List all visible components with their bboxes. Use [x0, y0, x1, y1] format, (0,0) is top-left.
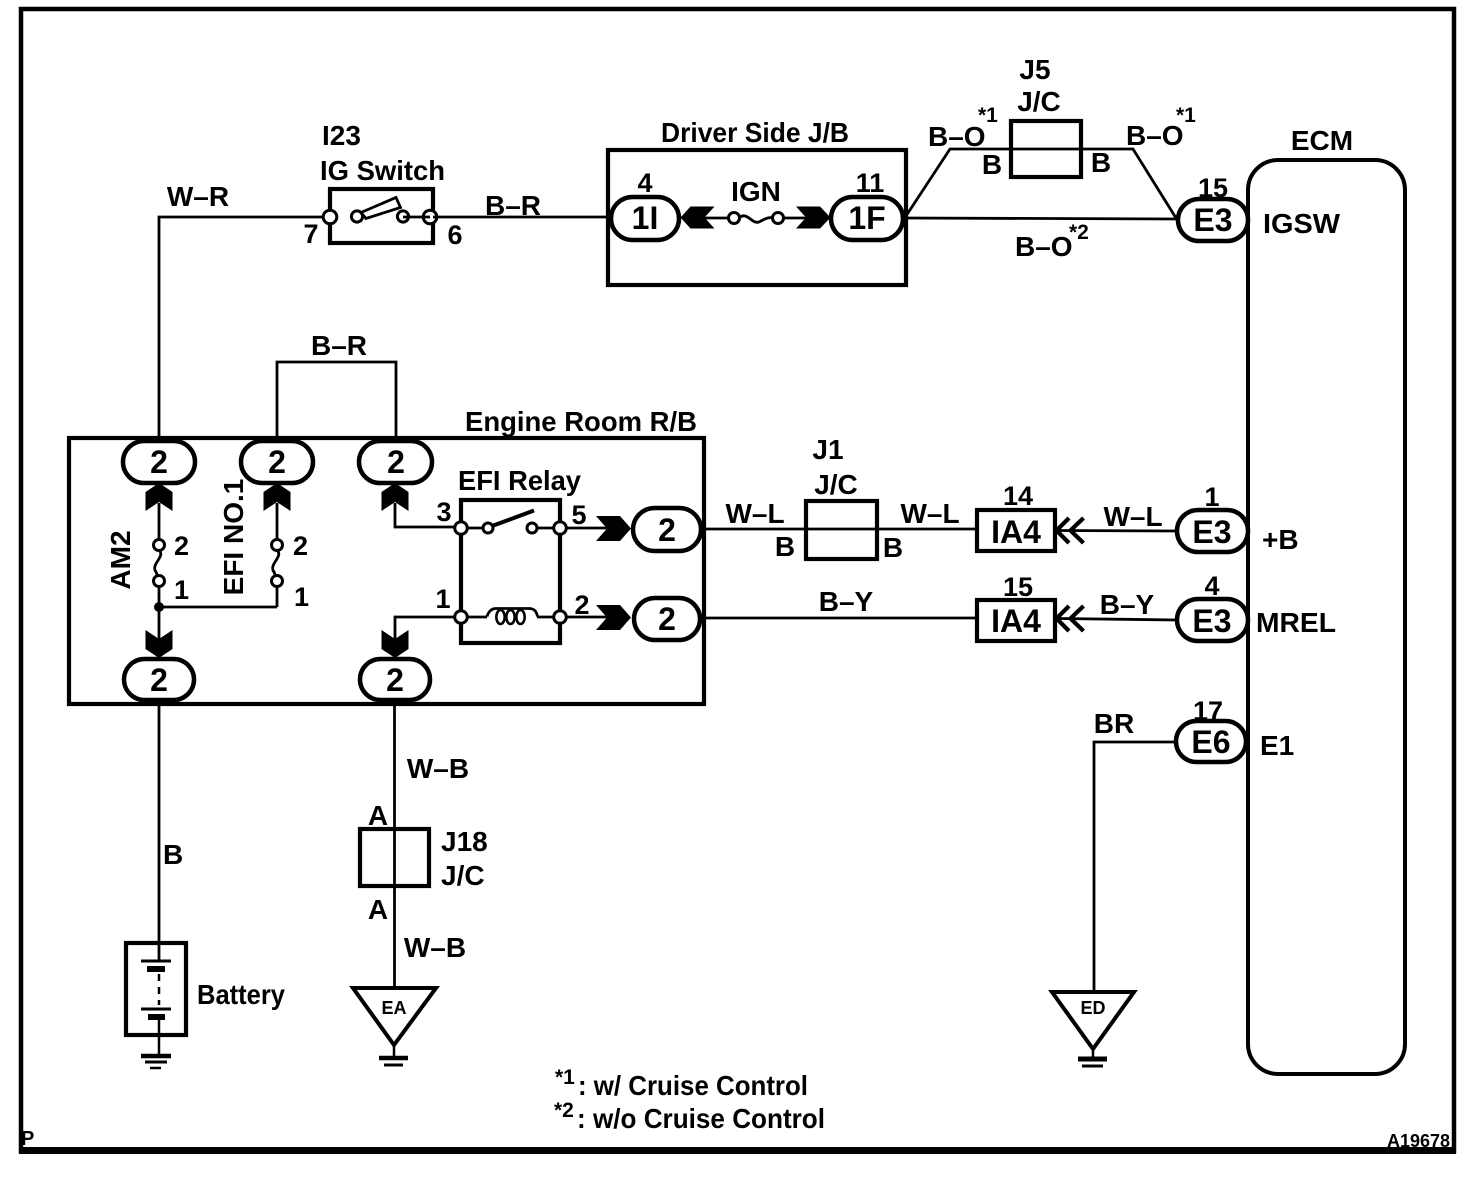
label B	[163, 839, 183, 870]
pin 7	[303, 219, 318, 249]
arrow right row2	[596, 605, 631, 630]
label ECM	[1291, 125, 1353, 156]
label B-R	[485, 190, 541, 221]
svg-text:5: 5	[571, 500, 586, 530]
svg-text:2: 2	[150, 662, 168, 698]
svg-text:11: 11	[856, 168, 885, 198]
label P	[21, 1128, 34, 1150]
label W-L 1	[725, 498, 784, 529]
svg-text:W–B: W–B	[407, 753, 469, 784]
connector IA4 pin 15	[977, 600, 1055, 641]
svg-text:B: B	[163, 839, 183, 870]
junction J5 J/C	[1011, 121, 1081, 177]
svg-text:17: 17	[1193, 696, 1223, 726]
label B right of J1	[883, 532, 903, 563]
chevrons row1	[1057, 518, 1084, 543]
connector 2 top col2	[241, 441, 313, 483]
label BR	[1094, 708, 1134, 739]
svg-text:J/C: J/C	[441, 860, 485, 891]
svg-text:Engine Room R/B: Engine Room R/B	[465, 406, 697, 437]
relay switch contacts	[483, 511, 554, 534]
svg-text:2: 2	[293, 531, 308, 561]
chevrons row2	[1057, 606, 1084, 631]
label IGN	[731, 176, 781, 207]
svg-text:4: 4	[1204, 571, 1219, 601]
pin 6	[447, 220, 462, 250]
battery	[126, 943, 186, 1056]
svg-text:1: 1	[435, 584, 450, 614]
label B-O*1 left	[928, 104, 998, 152]
fuse EFI NO.1	[272, 503, 283, 607]
pin 1 relay	[435, 584, 450, 614]
svg-text:3: 3	[436, 497, 451, 527]
svg-text:Driver Side J/B: Driver Side J/B	[661, 117, 849, 148]
pin 11	[856, 168, 885, 198]
svg-text:B: B	[883, 532, 903, 563]
connector E3 pin 1	[1177, 510, 1248, 552]
svg-text:A: A	[368, 894, 388, 925]
footnote 2	[554, 1099, 825, 1134]
svg-text:B–Y: B–Y	[1100, 589, 1155, 620]
svg-text:AM2: AM2	[105, 530, 136, 589]
svg-text:B–O: B–O	[1015, 231, 1073, 262]
ground battery	[141, 1056, 171, 1068]
svg-text:IG Switch: IG Switch	[320, 155, 445, 186]
relay pin circles	[455, 522, 567, 624]
label W-L 2	[900, 498, 959, 529]
arrow down col1	[146, 630, 173, 658]
svg-text:4: 4	[637, 168, 652, 198]
svg-text:B–R: B–R	[311, 330, 367, 361]
wire W-L to E3	[1058, 529, 1177, 532]
svg-text:W–L: W–L	[1103, 501, 1162, 532]
label J1	[812, 434, 843, 465]
label MREL	[1256, 607, 1336, 638]
arrow up col3	[382, 483, 409, 511]
label IG Switch	[320, 155, 445, 186]
Engine Room R/B box	[69, 438, 704, 704]
label I23	[322, 120, 361, 151]
connector E6 pin 17	[1176, 721, 1246, 762]
wire BR to E6	[1094, 742, 1176, 992]
wire relay pin5 to output	[566, 527, 608, 530]
svg-text:IA4: IA4	[991, 514, 1041, 550]
svg-text:2: 2	[658, 601, 676, 637]
connector 2 bottom col1	[124, 659, 194, 700]
svg-text:14: 14	[1003, 481, 1033, 511]
IG switch I23	[323, 189, 437, 243]
svg-text:W–L: W–L	[900, 498, 959, 529]
svg-text:*2: *2	[554, 1099, 574, 1122]
ECM box	[1248, 160, 1405, 1074]
svg-text:*1: *1	[555, 1066, 575, 1089]
fuse AM2	[154, 503, 165, 604]
label B-Y 1	[819, 586, 874, 617]
pin 4	[637, 168, 652, 198]
pin 2 AM2	[174, 531, 189, 561]
svg-text:J5: J5	[1019, 54, 1050, 85]
pin 15	[1198, 173, 1228, 203]
svg-text:15: 15	[1198, 173, 1228, 203]
connector 2 top col1	[123, 441, 195, 483]
svg-text:E1: E1	[1260, 730, 1294, 761]
label B-Y 2	[1100, 589, 1155, 620]
pin 17	[1193, 696, 1223, 726]
connector IA4 pin 14	[977, 510, 1055, 551]
svg-text:EFI NO.1: EFI NO.1	[218, 479, 249, 596]
label W-R	[167, 181, 229, 212]
svg-text:1: 1	[294, 582, 309, 612]
junction node	[154, 602, 164, 612]
label EFI NO.1	[218, 479, 249, 596]
label B left of J1	[775, 531, 795, 562]
svg-text:B–O: B–O	[1126, 120, 1184, 151]
label IGSW	[1263, 208, 1341, 239]
svg-text:E3: E3	[1193, 202, 1232, 238]
label J/C	[1017, 86, 1061, 117]
wire B-O*1 branch through J5	[906, 149, 1176, 218]
label B-O*1 right	[1126, 104, 1196, 151]
label B-O*2	[1015, 221, 1089, 262]
label J5	[1019, 54, 1050, 85]
label W-B 1	[407, 753, 469, 784]
svg-text:6: 6	[447, 220, 462, 250]
relay coil	[465, 528, 554, 624]
connector E3 pin 4	[1177, 599, 1248, 641]
svg-text:7: 7	[303, 219, 318, 249]
connector 1F	[831, 197, 903, 240]
svg-text:1: 1	[1204, 482, 1219, 512]
svg-text:*1: *1	[1176, 104, 1196, 127]
label J18	[441, 826, 488, 857]
wire W-R from IG switch to Engine Room R/B	[159, 217, 330, 441]
svg-text:B–Y: B–Y	[819, 586, 874, 617]
svg-text:2: 2	[174, 531, 189, 561]
svg-text:E3: E3	[1192, 603, 1231, 639]
pin 1 AM2	[174, 575, 189, 605]
wire relay pin2 to output	[566, 616, 608, 619]
svg-text:B–R: B–R	[485, 190, 541, 221]
wire B-R loop	[277, 362, 396, 440]
wire W-L row	[701, 528, 977, 531]
label B right of J5	[1091, 147, 1111, 178]
footnote 1	[555, 1066, 808, 1101]
wire B-R IG switch to J/B	[433, 216, 611, 219]
connector 1I	[611, 197, 679, 240]
label W-B 2	[404, 932, 466, 963]
wire B-O*2 from 1F to E3	[903, 218, 1177, 219]
svg-text:2: 2	[574, 590, 589, 620]
svg-text:A19678: A19678	[1387, 1131, 1450, 1151]
pin 1 E3	[1204, 482, 1219, 512]
svg-text:*1: *1	[978, 104, 998, 127]
svg-text:B: B	[775, 531, 795, 562]
wire to relay pin 3	[395, 503, 455, 527]
connector 2 right row1	[633, 508, 701, 551]
pin 3	[436, 497, 451, 527]
arrow up col1	[146, 483, 173, 511]
svg-text:2: 2	[268, 444, 286, 480]
svg-text:J/C: J/C	[814, 469, 858, 500]
arrow down col3	[382, 630, 409, 658]
label Engine Room R/B	[465, 406, 697, 437]
svg-text:1I: 1I	[632, 200, 659, 236]
label E1	[1260, 730, 1294, 761]
svg-text:15: 15	[1003, 572, 1033, 602]
svg-text:EFI Relay: EFI Relay	[458, 465, 581, 496]
connector 2 top col3	[359, 441, 432, 483]
label J/C J1	[814, 469, 858, 500]
svg-text:W–R: W–R	[167, 181, 229, 212]
svg-text:2: 2	[387, 444, 405, 480]
svg-text:: w/o Cruise Control: : w/o Cruise Control	[577, 1103, 825, 1134]
wire junction to down arrow	[158, 607, 161, 640]
svg-text:W–B: W–B	[404, 932, 466, 963]
svg-text:ECM: ECM	[1291, 125, 1353, 156]
svg-text:2: 2	[386, 662, 404, 698]
svg-text:MREL: MREL	[1256, 607, 1336, 638]
label B-R loop	[311, 330, 367, 361]
connector 2 right row2	[634, 598, 700, 640]
svg-text:J18: J18	[441, 826, 488, 857]
label EFI Relay	[458, 465, 581, 496]
pin 2 relay	[574, 590, 589, 620]
label A below J18	[368, 894, 388, 925]
svg-text:1: 1	[174, 575, 189, 605]
wire W-B column	[393, 700, 396, 988]
arrow right row1	[596, 516, 631, 541]
svg-text:EA: EA	[381, 998, 406, 1018]
connector 2 bottom col3	[360, 659, 430, 700]
fuse IGN	[681, 207, 831, 229]
label A above J18	[368, 800, 388, 831]
pin 14	[1003, 481, 1033, 511]
svg-text:J1: J1	[812, 434, 843, 465]
svg-text:IGN: IGN	[731, 176, 781, 207]
svg-text:ED: ED	[1080, 998, 1105, 1018]
svg-text:1F: 1F	[848, 200, 885, 236]
label B left of J5	[982, 149, 1002, 180]
wire battery feed	[158, 700, 161, 961]
Driver Side J/B box	[608, 150, 906, 285]
svg-text:I23: I23	[322, 120, 361, 151]
pin 15 IA4	[1003, 572, 1033, 602]
svg-text:A: A	[368, 800, 388, 831]
arrow up col2	[264, 483, 291, 511]
label Driver Side J/B	[661, 117, 849, 148]
pin 4 E3	[1204, 571, 1219, 601]
svg-text:E6: E6	[1191, 724, 1230, 760]
svg-text:W–L: W–L	[725, 498, 784, 529]
svg-text:: w/ Cruise Control: : w/ Cruise Control	[578, 1070, 808, 1101]
junction J1 J/C	[806, 501, 877, 559]
label J/C J18	[441, 860, 485, 891]
svg-text:Battery: Battery	[197, 979, 285, 1010]
pin 1 EFI	[294, 582, 309, 612]
svg-text:BR: BR	[1094, 708, 1134, 739]
svg-text:P: P	[21, 1128, 34, 1150]
svg-text:*2: *2	[1069, 221, 1089, 244]
wire B-Y to E3	[1058, 619, 1177, 621]
wire fuse link to junction	[159, 606, 277, 609]
svg-text:E3: E3	[1192, 514, 1231, 550]
junction J18 J/C	[360, 829, 429, 886]
pin 2 EFI	[293, 531, 308, 561]
svg-text:J/C: J/C	[1017, 86, 1061, 117]
svg-text:2: 2	[150, 444, 168, 480]
svg-text:IA4: IA4	[991, 603, 1041, 639]
label AM2	[105, 530, 136, 589]
ground EA	[353, 988, 436, 1065]
EFI Relay box	[461, 500, 560, 643]
svg-text:B: B	[1091, 147, 1111, 178]
label Battery	[197, 979, 285, 1010]
ground ED	[1052, 992, 1134, 1066]
connector E3 pin 15 IGSW	[1178, 199, 1248, 241]
wire relay pin1 to down arrow	[395, 617, 455, 640]
pin 5	[571, 500, 586, 530]
wire B-Y row	[700, 617, 977, 620]
label A19678	[1387, 1131, 1450, 1151]
svg-text:B: B	[982, 149, 1002, 180]
label W-L 3	[1103, 501, 1162, 532]
label +B	[1262, 524, 1299, 555]
svg-text:2: 2	[658, 512, 676, 548]
svg-text:B–O: B–O	[928, 121, 986, 152]
svg-text:IGSW: IGSW	[1263, 208, 1341, 239]
svg-text:+B: +B	[1262, 524, 1299, 555]
